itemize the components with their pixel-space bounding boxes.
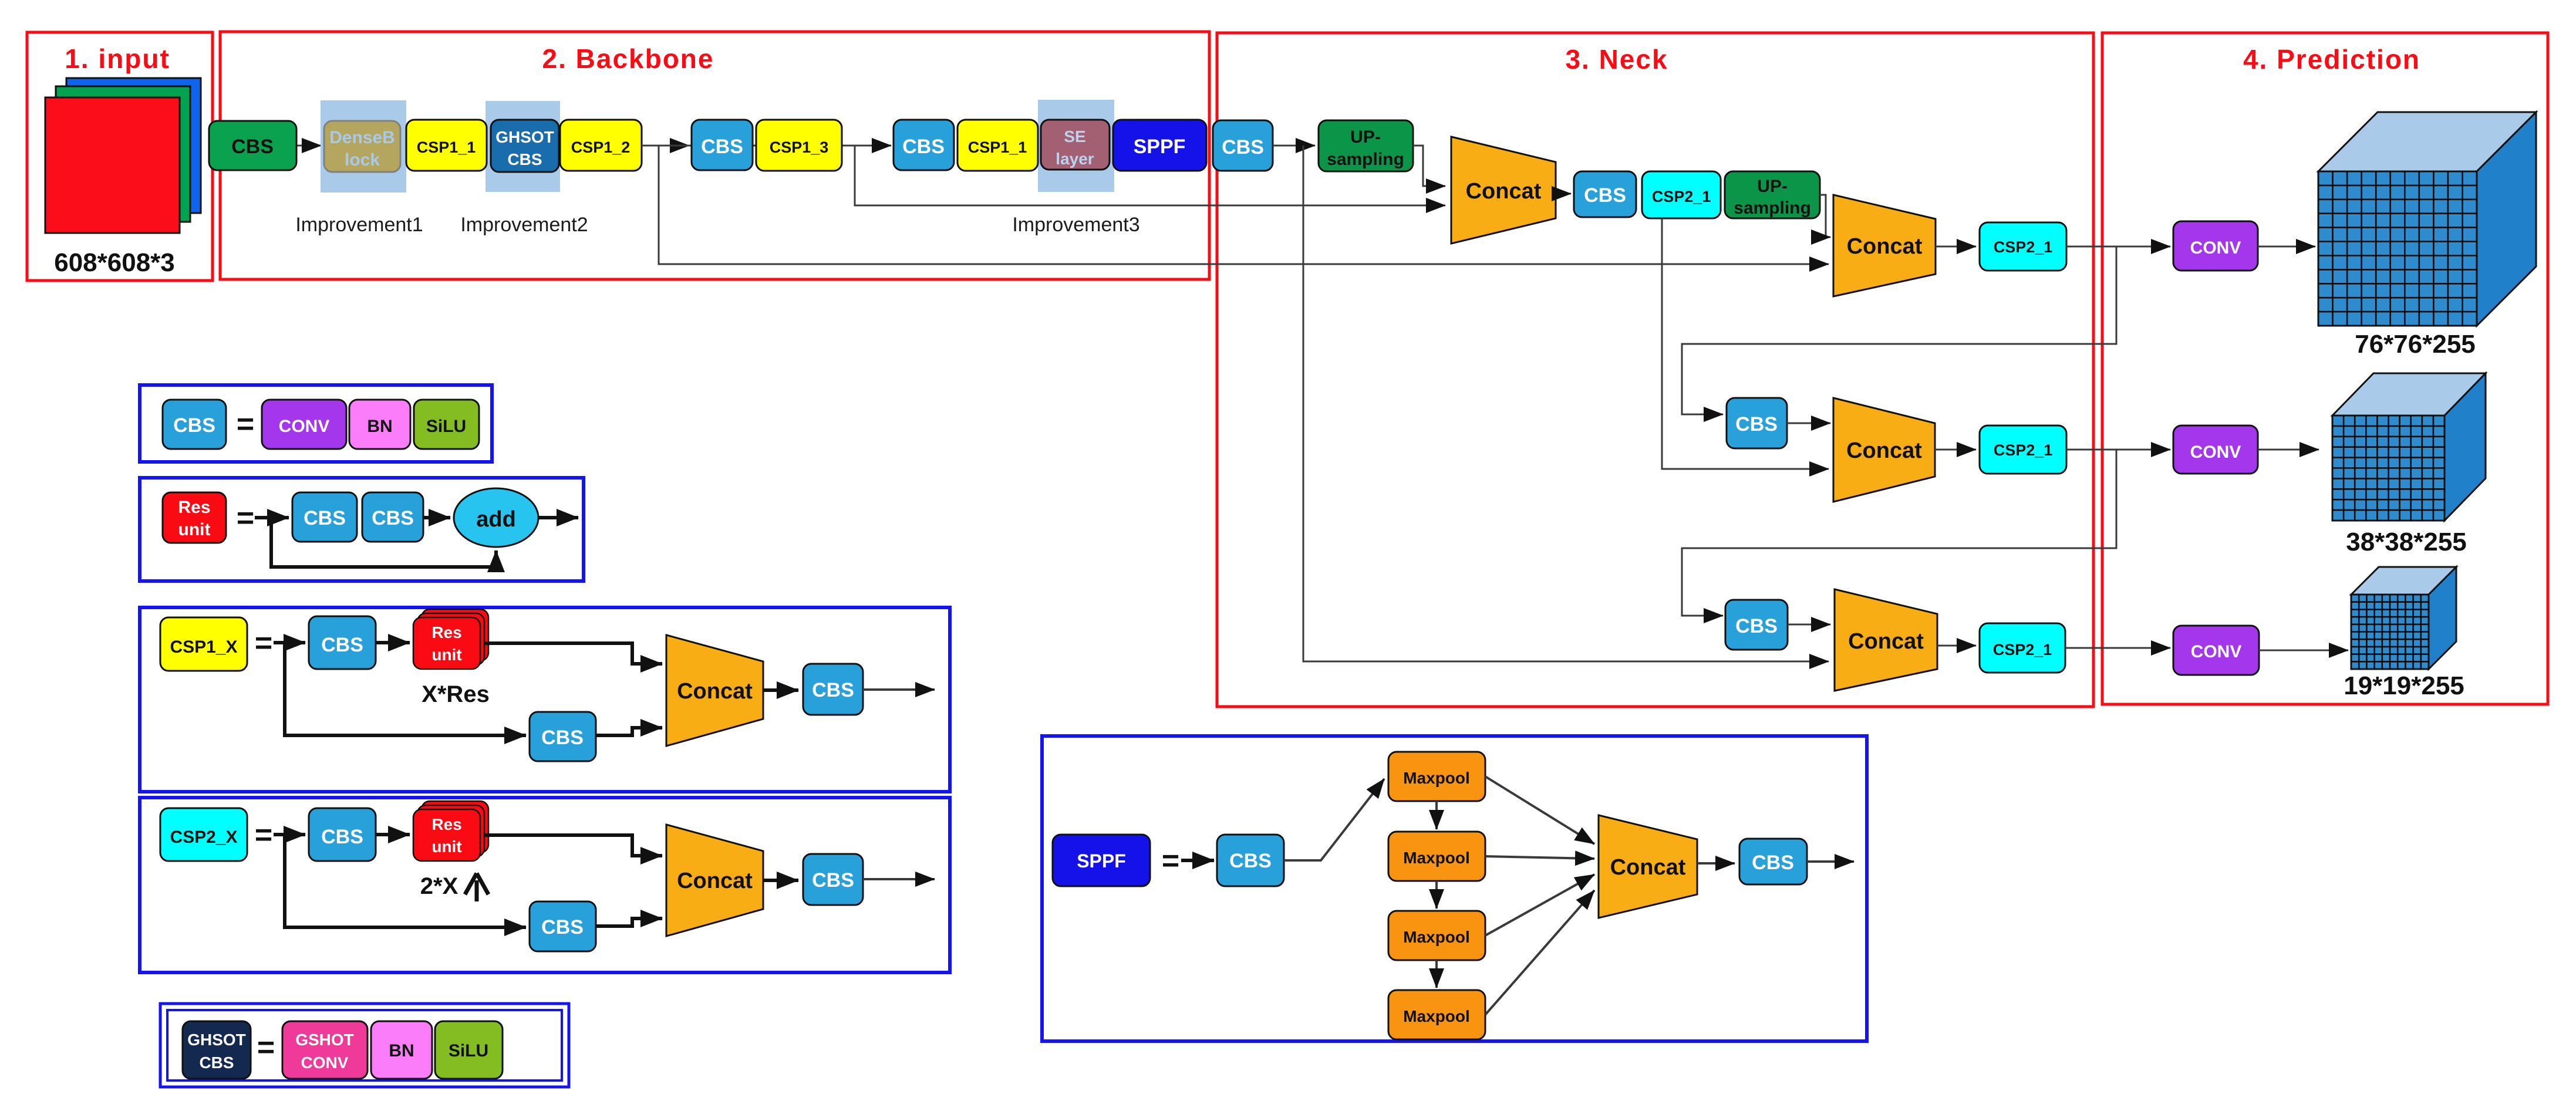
legend block CBS h <box>803 854 863 905</box>
concat D trapezoid <box>1835 589 1937 691</box>
svg-text:CBS: CBS <box>231 136 274 158</box>
wire CSP2_1 B branch to CBS C <box>1682 246 2116 414</box>
svg-text:unit: unit <box>178 520 211 539</box>
block CSP2_1 (row B) <box>1980 222 2066 271</box>
legend block CBS <box>163 400 226 449</box>
wire CONV to cube 76 <box>2258 246 2315 248</box>
concat B trapezoid <box>1833 195 1936 296</box>
block UP-sampling 2 <box>1725 171 1820 218</box>
block CBS (neck row A) <box>1574 171 1636 217</box>
legend concat 1 trapezoid <box>666 635 763 746</box>
svg-text:unit: unit <box>431 838 461 856</box>
legend block GSHOT CONV <box>282 1021 367 1079</box>
legend block GHSOT CBS <box>183 1021 251 1079</box>
block CONV (76 row) <box>2173 221 2258 271</box>
legend block Maxpool 3 <box>1388 911 1485 960</box>
svg-text:UP-: UP- <box>1757 177 1788 196</box>
legend block CBS g <box>530 901 596 951</box>
wire Concat A to CBS <box>1556 193 1571 195</box>
wire CBS to UP-sampling 1 <box>1273 145 1315 147</box>
section frame 1. input <box>27 32 213 281</box>
legend bypass CSP1 <box>285 643 526 735</box>
svg-text:GHSOT: GHSOT <box>495 128 554 146</box>
block CBS (row D) <box>1725 600 1788 650</box>
legend res unit stack 1 <box>422 609 488 661</box>
svg-text:CSP1_1: CSP1_1 <box>417 139 476 156</box>
svg-text:CBS: CBS <box>1735 615 1778 637</box>
svg-text:=: = <box>237 501 254 535</box>
legend wire CBS to add <box>423 516 450 519</box>
wire CSP1_2 to CBS <box>642 145 689 147</box>
svg-text:Improvement2: Improvement2 <box>460 214 588 236</box>
legend block CBS a <box>292 492 357 542</box>
concat A trapezoid <box>1451 137 1556 244</box>
svg-text:Maxpool: Maxpool <box>1403 849 1470 867</box>
legend wire CBS to Maxpool 1 <box>1284 779 1384 860</box>
svg-text:CSP2_1: CSP2_1 <box>1994 441 2053 459</box>
legend wire Maxpool1 to Concat <box>1485 776 1594 844</box>
prediction cube 38*38*255 <box>2332 373 2486 416</box>
svg-text:4. Prediction: 4. Prediction <box>2243 44 2420 75</box>
legend block CSP1_X <box>160 617 247 671</box>
svg-text:Res: Res <box>431 623 461 641</box>
legend block Maxpool 4 <box>1388 990 1485 1039</box>
legend frame SPPF <box>1042 736 1867 1041</box>
highlight Improvement1 <box>321 100 406 193</box>
svg-text:Improvement1: Improvement1 <box>295 214 423 236</box>
block CSP1_2 (backbone) <box>560 120 642 171</box>
svg-text:CSP1_X: CSP1_X <box>170 637 237 657</box>
legend block SiLU <box>414 400 479 449</box>
legend wire Maxpool 3-4 <box>1435 960 1438 988</box>
svg-text:CBS: CBS <box>541 916 584 938</box>
block CBS (neck first) <box>1213 120 1273 171</box>
svg-text:19*19*255: 19*19*255 <box>2344 671 2464 700</box>
highlight Improvement2 <box>485 101 560 192</box>
block CONV (38 row) <box>2173 426 2258 474</box>
svg-text:CBS: CBS <box>1229 850 1272 872</box>
svg-text:Concat: Concat <box>1610 855 1686 880</box>
legend wire CSP2 in <box>274 833 305 836</box>
svg-text:Concat: Concat <box>1848 629 1924 654</box>
legend frame Res unit <box>140 478 584 581</box>
legend block BN 2 <box>371 1021 432 1079</box>
svg-text:CBS: CBS <box>1752 852 1794 874</box>
wire CSP2_1 C to CONV 38 <box>2066 449 2170 451</box>
block CBS (backbone input, green) <box>209 121 296 170</box>
svg-text:add: add <box>476 507 516 532</box>
legend wire Concat SPPF out <box>1697 862 1735 865</box>
svg-text:76*76*255: 76*76*255 <box>2355 330 2476 359</box>
svg-text:CBS: CBS <box>1584 184 1626 207</box>
wire CBS D to Concat D <box>1788 624 1830 626</box>
wire CSP1_3 to CBS <box>842 145 891 147</box>
legend block CBS sppf2 <box>1739 839 1807 884</box>
legend wire CBS to Res stack 2 <box>376 833 410 836</box>
block CSP1_1 (backbone second) <box>957 120 1038 171</box>
svg-text:CBS: CBS <box>173 414 215 437</box>
legend wire Concat 1 out <box>763 688 798 692</box>
svg-text:1. input: 1. input <box>65 43 170 74</box>
svg-text:BN: BN <box>389 1041 414 1061</box>
legend wire CBS g to Concat 2 <box>596 918 662 926</box>
svg-text:GHSOT: GHSOT <box>187 1031 246 1049</box>
svg-text:Concat: Concat <box>677 869 753 893</box>
wire CSP1_2 junction segment <box>659 145 855 147</box>
block UP-sampling 1 <box>1319 120 1413 171</box>
wire UP-sampling 1 to Concat A <box>1413 146 1445 186</box>
svg-text:CSP1_1: CSP1_1 <box>968 139 1027 156</box>
concat C trapezoid <box>1833 398 1935 502</box>
svg-text:CONV: CONV <box>2190 238 2241 258</box>
legend block CBS sppf1 <box>1217 835 1284 886</box>
section frame 2. Backbone <box>220 32 1209 279</box>
wire CSP1_2 branch to Concat B <box>659 146 1829 264</box>
wire CSP2_1 C branch to CBS D <box>1682 450 2116 616</box>
svg-text:CSP2_1: CSP2_1 <box>1993 641 2052 659</box>
svg-text:Maxpool: Maxpool <box>1403 769 1470 787</box>
legend wire Maxpool 1-2 <box>1435 801 1438 829</box>
svg-text:CSP2_1: CSP2_1 <box>1994 238 2053 256</box>
svg-text:Concat: Concat <box>677 679 753 704</box>
legend block CONV <box>262 400 346 449</box>
legend wire SPPF in <box>1181 859 1214 862</box>
legend block SiLU 2 <box>435 1021 503 1079</box>
block CBS (backbone 2) <box>692 120 753 170</box>
svg-text:SiLU: SiLU <box>449 1041 488 1061</box>
svg-text:Maxpool: Maxpool <box>1403 928 1470 946</box>
svg-text:CBS: CBS <box>1735 413 1778 435</box>
svg-text:=: = <box>1162 844 1179 878</box>
wire UP-sampling 2 to Concat B <box>1820 195 1830 237</box>
block SE layer <box>1041 120 1110 170</box>
block CONV (19 row) <box>2173 626 2259 675</box>
wire CONV to cube 38 <box>2258 449 2319 451</box>
svg-text:Concat: Concat <box>1466 179 1542 204</box>
legend wire Maxpool2 to Concat <box>1485 856 1594 859</box>
svg-text:sampling: sampling <box>1327 150 1404 169</box>
legend wire SPPF final out <box>1807 860 1854 863</box>
svg-text:=: = <box>257 1031 275 1065</box>
legend wire add out <box>538 516 578 519</box>
prediction cube 19*19*255 <box>2351 567 2456 595</box>
legend frame GHSOT inner <box>167 1010 562 1080</box>
section frame 3. Neck <box>1217 33 2093 707</box>
block GHSOT CBS (backbone) <box>491 120 559 172</box>
legend wire CSP1 final out <box>863 688 935 691</box>
legend block CSP2_X <box>160 808 247 861</box>
svg-text:CSP1_2: CSP1_2 <box>571 139 630 156</box>
block CSP2_1 (row C) <box>1980 426 2066 474</box>
legend wire CBS to Res stack 1 <box>376 641 410 644</box>
wire CSP1_3 branch to Concat A <box>855 146 1445 205</box>
svg-text:CONV: CONV <box>2190 443 2241 462</box>
legend block SPPF <box>1053 835 1150 886</box>
legend block CBS d <box>530 712 596 761</box>
legend bypass Res unit <box>271 518 496 567</box>
input image blue layer <box>66 78 201 213</box>
svg-text:CBS: CBS <box>199 1053 234 1072</box>
block DenseBlock <box>324 121 400 172</box>
legend frame GHSOT outer <box>160 1004 569 1087</box>
svg-text:CBS: CBS <box>701 136 743 158</box>
svg-text:CBS: CBS <box>902 136 945 158</box>
svg-text:CSP1_3: CSP1_3 <box>770 139 829 156</box>
svg-text:Concat: Concat <box>1847 234 1923 259</box>
block CSP2_1 (neck row A) <box>1642 171 1721 218</box>
block CSP2_1 (row D) <box>1980 623 2065 673</box>
svg-text:CBS: CBS <box>372 507 414 529</box>
svg-text:=: = <box>237 407 254 441</box>
svg-text:CSP2_1: CSP2_1 <box>1652 188 1711 205</box>
svg-text:CBS: CBS <box>812 869 854 891</box>
wire Concat D to CSP2_1 D <box>1937 645 1976 647</box>
legend concat SPPF trapezoid <box>1599 815 1697 918</box>
svg-text:CBS: CBS <box>1222 136 1264 158</box>
wire CSP2_1 B to CONV 76 <box>2066 246 2170 248</box>
legend block CBS f <box>309 808 376 861</box>
svg-text:SPPF: SPPF <box>1077 850 1126 872</box>
svg-text:CSP2_X: CSP2_X <box>170 828 237 847</box>
legend concat 2 trapezoid <box>666 825 763 936</box>
legend wire Res to Concat 2 <box>484 835 662 856</box>
legend bypass CSP2 <box>285 835 526 927</box>
highlight Improvement3 <box>1038 100 1114 192</box>
block CSP1_1 (backbone) <box>406 120 487 171</box>
legend wire Maxpool 2-3 <box>1435 881 1438 909</box>
svg-text:X*Res: X*Res <box>422 681 490 707</box>
block CBS (backbone 3) <box>893 120 954 170</box>
legend res unit stack 2 <box>422 801 488 853</box>
svg-text:3. Neck: 3. Neck <box>1565 44 1668 75</box>
svg-text:SiLU: SiLU <box>426 417 466 436</box>
prediction cube 76*76*255 <box>2318 112 2536 171</box>
svg-text:=: = <box>255 626 272 660</box>
svg-text:CONV: CONV <box>2191 642 2242 661</box>
legend frame CSP1_X <box>140 607 950 792</box>
svg-text:CBS: CBS <box>304 507 346 529</box>
svg-text:2*X: 2*X <box>420 873 458 899</box>
legend wire Res in <box>255 516 289 519</box>
block CSP1_3 (backbone) <box>756 120 842 171</box>
svg-text:Res: Res <box>178 498 210 517</box>
legend block Res unit <box>163 492 226 543</box>
block CBS (row C) <box>1727 398 1787 448</box>
svg-text:CBS: CBS <box>507 150 542 168</box>
svg-text:CONV: CONV <box>279 417 330 436</box>
legend wire Maxpool4 to Concat <box>1485 890 1594 1015</box>
wire CBS C to Concat C <box>1787 423 1830 424</box>
svg-text:2. Backbone: 2. Backbone <box>542 43 714 74</box>
wire CONV to cube 19 <box>2259 650 2348 651</box>
legend wire CBS d to Concat 1 <box>596 728 662 735</box>
svg-text:Maxpool: Maxpool <box>1403 1007 1470 1025</box>
svg-text:Res: Res <box>431 815 461 833</box>
legend wire CSP2 final out <box>863 878 935 880</box>
svg-text:SE: SE <box>1064 127 1085 146</box>
legend block CBS c <box>309 616 376 669</box>
legend block CBS b <box>362 492 423 542</box>
wire neck CBS branch to Concat D <box>1303 146 1829 661</box>
legend wire Maxpool3 to Concat <box>1485 874 1594 936</box>
svg-text:=: = <box>255 818 272 852</box>
svg-text:CBS: CBS <box>321 634 363 656</box>
wire CBS to DenseBlock <box>296 145 321 147</box>
svg-text:BN: BN <box>367 417 392 436</box>
input image green layer <box>56 86 190 222</box>
legend wire Concat 2 out <box>763 879 798 882</box>
wire Concat B to CSP2_1 B <box>1936 246 1976 248</box>
svg-text:GSHOT: GSHOT <box>295 1031 354 1049</box>
wire CSP2_1 D to CONV 19 <box>2065 647 2170 649</box>
svg-text:UP-: UP- <box>1350 127 1381 147</box>
svg-text:Concat: Concat <box>1846 438 1922 463</box>
wire CSP2_1 A branch to Concat C <box>1662 218 1829 469</box>
legend block Maxpool 2 <box>1388 832 1485 881</box>
legend frame CBS <box>140 385 492 462</box>
svg-text:CBS: CBS <box>812 679 854 701</box>
svg-text:DenseB: DenseB <box>329 128 395 147</box>
svg-text:layer: layer <box>1056 150 1094 168</box>
section frame 4. Prediction <box>2102 33 2548 704</box>
svg-text:lock: lock <box>345 150 380 170</box>
input image red layer <box>45 97 180 233</box>
legend block CBS e <box>803 664 863 715</box>
legend block BN <box>349 400 410 449</box>
svg-text:608*608*3: 608*608*3 <box>54 248 175 277</box>
svg-text:sampling: sampling <box>1734 198 1811 218</box>
legend block Maxpool 1 <box>1388 752 1485 801</box>
block SPPF (backbone) <box>1113 120 1206 171</box>
svg-text:CBS: CBS <box>541 727 584 749</box>
svg-text:Improvement3: Improvement3 <box>1012 214 1139 236</box>
legend wire Res to Concat 1 <box>484 643 662 664</box>
svg-text:CONV: CONV <box>301 1053 349 1072</box>
svg-text:SPPF: SPPF <box>1134 136 1186 158</box>
svg-text:38*38*255: 38*38*255 <box>2346 528 2467 556</box>
legend wire CSP1 in <box>274 641 305 644</box>
legend frame CSP2_X <box>140 798 950 972</box>
svg-text:CBS: CBS <box>321 826 363 848</box>
wire Concat C to CSP2_1 C <box>1935 449 1976 451</box>
legend add ellipse <box>454 488 538 547</box>
svg-text:unit: unit <box>431 646 461 664</box>
